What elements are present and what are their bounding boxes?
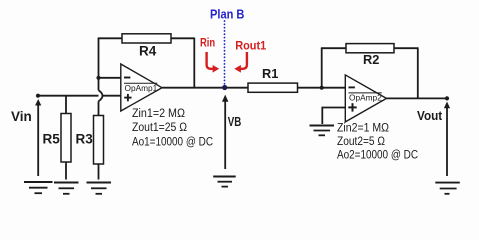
svg-text:Plan B: Plan B [210,7,244,21]
svg-text:Zin2=1 MΩ: Zin2=1 MΩ [337,120,389,134]
svg-text:R4: R4 [139,44,157,59]
wire: feedback column from R4 down to R3 with hop over input wire [99,38,103,115]
svg-text:Rin: Rin [200,35,215,49]
resistor R1 [248,83,298,92]
wire: OpAmp2 non-inverting input to ground [322,107,345,124]
svg-text:Zout1=25 Ω: Zout1=25 Ω [132,120,187,134]
ground (R3) [87,183,112,194]
voltage source arrow Vin [35,99,41,176]
plane B dotted line [224,21,226,85]
svg-text:OpAmp1: OpAmp1 [125,83,158,93]
op-amp U1 OpAmp1 [121,64,162,111]
resistor R5 [61,114,71,163]
node: R1/R2 junction [320,86,324,90]
resistor R2 [346,44,394,53]
ground (Vin) [24,182,53,193]
arrow Rin [207,52,220,73]
node Vout [445,96,449,100]
wire: OpAmp1 output to R1 [162,87,248,89]
wire: R5 to ground [65,162,67,180]
node B (VB) [222,85,227,90]
wire: OpAmp1 inverting input [99,77,121,79]
svg-text:VB: VB [228,114,242,129]
arrow VB [222,95,228,169]
wire: R3 to ground [98,164,100,180]
svg-text:Rout1: Rout1 [235,39,266,53]
svg-text:R2: R2 [363,52,379,67]
svg-text:Vout: Vout [417,108,443,123]
arrow Vout [444,102,450,177]
svg-text:Vin: Vin [11,109,32,124]
svg-text:R5: R5 [43,132,61,147]
svg-text:Ao1=10000 @ DC: Ao1=10000 @ DC [132,135,213,149]
wire: R5 branch from input wire [65,96,67,114]
wire: R1 to OpAmp2 inverting input [298,87,346,89]
svg-text:Zout2=5 Ω: Zout2=5 Ω [337,134,385,148]
wire: R2 feedback loop [321,47,418,98]
wire: OpAmp2 output to Vout [387,97,448,99]
resistor R4 [122,34,171,43]
ground (Vout) [435,183,460,194]
ground (VB) [213,177,236,187]
svg-text:R3: R3 [76,132,94,147]
wire: R4 top-left segment [98,37,122,39]
wire: R4 right segment and vertical down to output [171,38,194,88]
node Vin [36,94,40,98]
svg-text:Zin1=2 MΩ: Zin1=2 MΩ [132,106,185,120]
resistor R3 [94,116,104,165]
op-amp U2 OpAmp2 [345,75,386,122]
ground (OpAmp2 non-inverting input) [310,126,335,136]
wire: Vin node to OpAmp1 non-inverting input [38,95,121,97]
svg-text:OpAmp2: OpAmp2 [349,93,382,103]
arrow Rout1 [234,52,247,73]
node: OpAmp1 inverting input junction [96,76,100,80]
svg-text:Ao2=10000 @ DC: Ao2=10000 @ DC [337,148,418,162]
ground (R5) [54,183,79,194]
svg-text:R1: R1 [262,66,278,81]
